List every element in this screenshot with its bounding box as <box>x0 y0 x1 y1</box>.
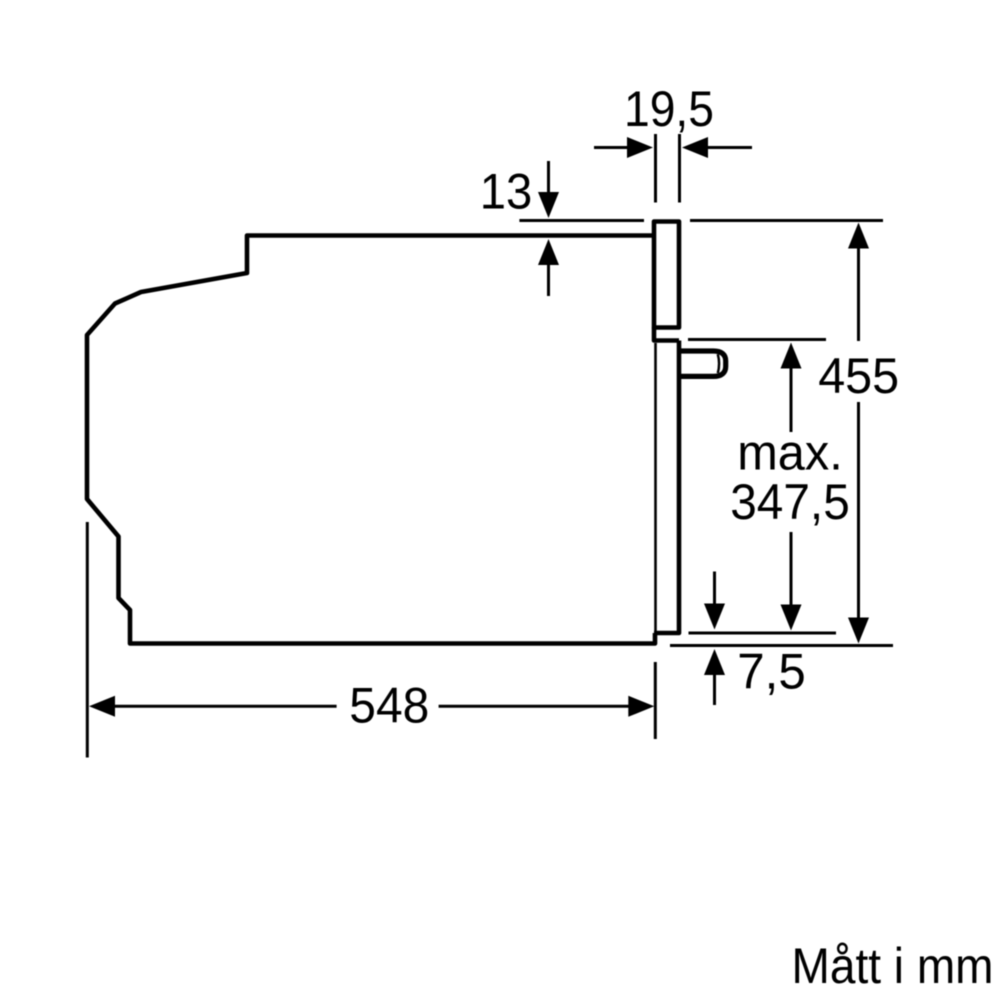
front control panel rectangle <box>654 222 679 328</box>
dim max 347,5 bottom extension line (door bottom) <box>689 632 837 635</box>
door handle <box>679 351 726 376</box>
door inner (left) thin edge <box>654 343 657 631</box>
dim 548 left line segment <box>114 705 337 708</box>
dim 548 right line segment <box>439 705 630 708</box>
dim 7,5 lower arrow stem <box>713 674 716 705</box>
dim 13 down arrow stem <box>547 161 550 193</box>
dim 13 down arrowhead <box>538 192 559 218</box>
dim 19,5 right extension line <box>678 134 681 203</box>
svg-text:19,5: 19,5 <box>624 81 714 137</box>
dim 7,5 upper arrow stem <box>713 572 716 606</box>
svg-text:max.: max. <box>737 425 843 481</box>
dim 455 top arrowhead <box>848 223 869 249</box>
door front edge and door bottom <box>654 341 679 634</box>
svg-text:Mått i mm: Mått i mm <box>792 938 994 994</box>
svg-text:347,5: 347,5 <box>730 474 850 530</box>
dim 548 left extension line <box>86 522 89 758</box>
svg-text:455: 455 <box>818 348 899 404</box>
dim 13 up arrowhead <box>538 239 559 265</box>
dim 455 lower stem <box>857 402 860 619</box>
handle end inner arc <box>718 354 719 373</box>
dim max 347,5 lower stem <box>790 532 793 606</box>
dim 19,5 right arrow line <box>707 146 752 149</box>
dim 19,5 left extension line <box>654 134 657 203</box>
dim max 347,5 top extension line <box>688 338 826 341</box>
dim 548 right arrowhead <box>628 696 654 717</box>
dim 7,5 lower arrowhead <box>704 649 725 675</box>
svg-text:13: 13 <box>480 164 533 220</box>
svg-text:7,5: 7,5 <box>737 644 806 700</box>
dim 455 top extension line <box>690 219 883 222</box>
dim max 347,5 bottom arrowhead <box>781 605 802 631</box>
front panel top extension line (left of panel, for dim 13) <box>519 219 644 222</box>
dim 19,5 left arrowhead <box>627 137 653 158</box>
dim max 347,5 top arrowhead <box>781 343 802 369</box>
dim 7,5 upper arrowhead <box>704 604 725 630</box>
oven body outline <box>87 236 655 644</box>
svg-text:548: 548 <box>349 678 429 734</box>
dim 548 right extension line <box>654 662 657 739</box>
dim 455 bottom arrowhead <box>848 618 869 644</box>
body bottom extension line (for dims 7,5 and 455) <box>670 644 893 647</box>
dim 13 up arrow stem <box>547 264 550 296</box>
dim max 347,5 upper stem <box>790 368 793 432</box>
dim 19,5 left arrow line <box>594 146 628 149</box>
dim 455 upper stem <box>857 248 860 341</box>
dim 548 left arrowhead <box>89 696 115 717</box>
slot below control panel / door top edge <box>654 328 679 341</box>
dim 19,5 right arrowhead <box>682 137 708 158</box>
